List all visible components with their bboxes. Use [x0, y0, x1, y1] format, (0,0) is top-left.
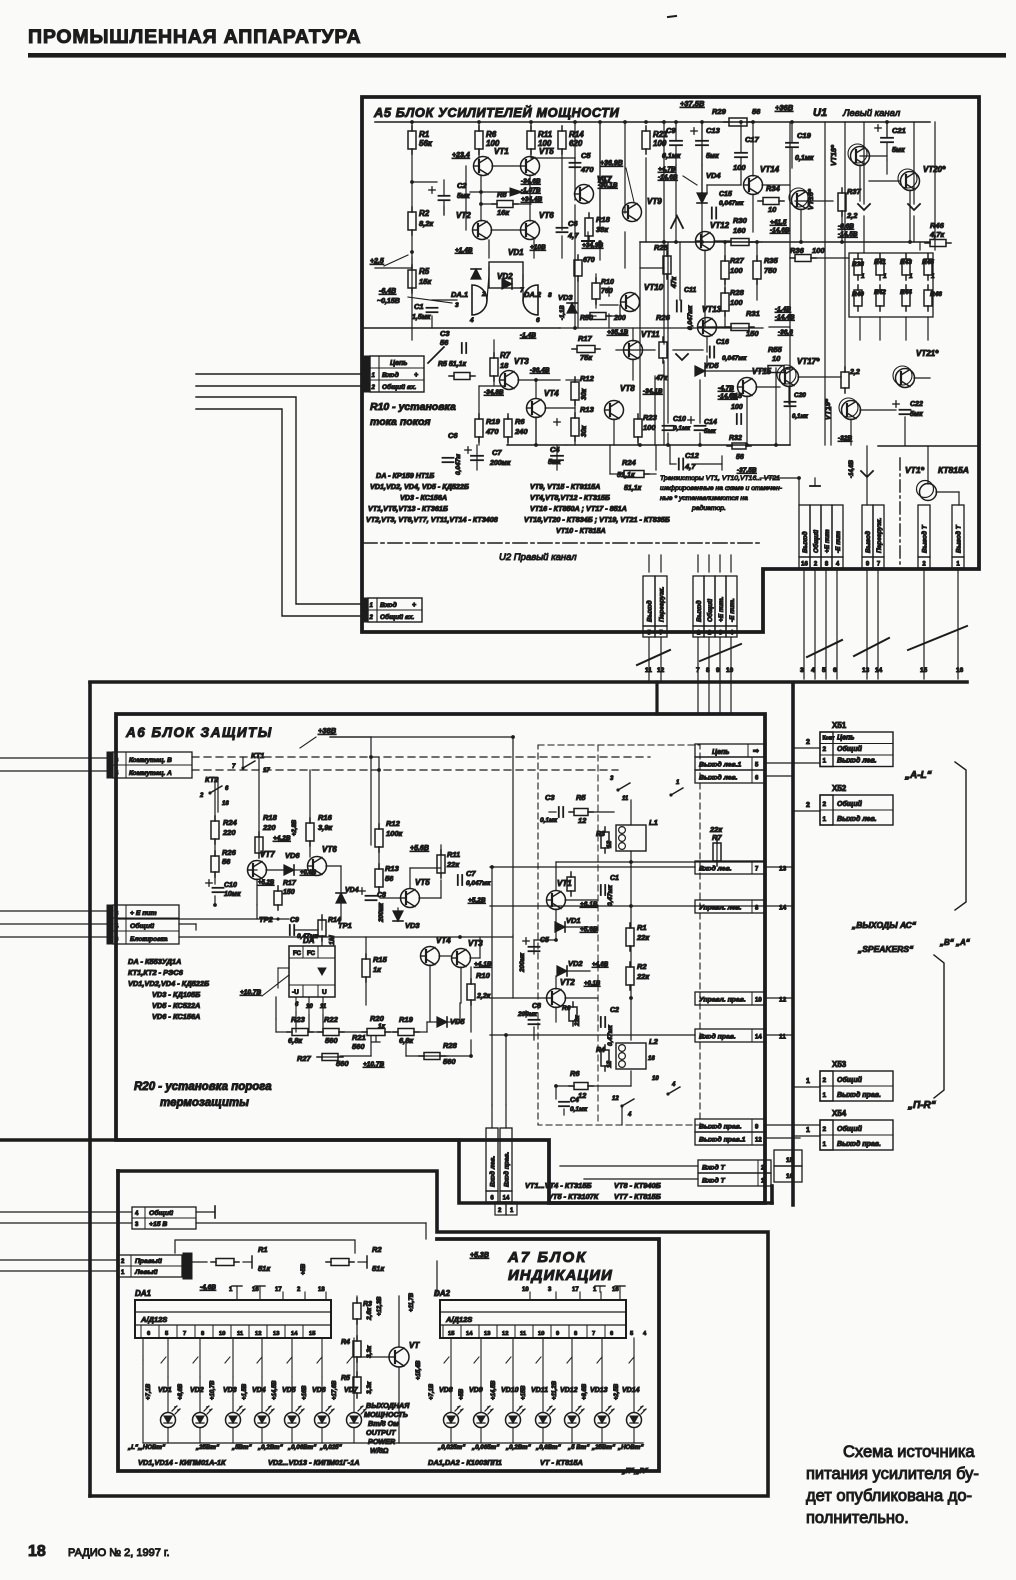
junction (910,242) [908, 240, 912, 244]
wire (471,1056)-(471,1040) [470, 1040, 472, 1056]
svg-text:4: 4 [811, 667, 815, 674]
junction (702,194) [700, 192, 704, 196]
svg-text:С9: С9 [290, 917, 299, 924]
transistor VT9 [623, 203, 642, 222]
diode VD5 [695, 366, 705, 376]
svg-text:„0,025“: „0,025“ [319, 1444, 343, 1451]
wire (322,920)-(322,930) [321, 920, 323, 930]
svg-text:С20: С20 [794, 392, 806, 399]
stray mark top [668, 16, 676, 17]
svg-text:5мк: 5мк [548, 459, 561, 466]
resistor r-bot-1 [876, 290, 884, 306]
wire (692,464)-(722,464) [692, 463, 722, 465]
svg-text:8: 8 [548, 292, 552, 299]
capacitor C2 [439, 195, 450, 197]
svg-text:2: 2 [199, 793, 204, 799]
wire (379,757)-(379,829) [378, 757, 380, 829]
connector column +Е пит U2 [715, 576, 726, 626]
connector column Общий U1 [810, 505, 821, 557]
connector column +Е пит U1 [821, 505, 832, 557]
svg-text:А/Д12S: А/Д12S [445, 1315, 472, 1324]
DA1 pin 17 [282, 1292, 284, 1300]
svg-text:VT10 - КТ815А: VT10 - КТ815А [556, 526, 606, 535]
svg-text:1: 1 [823, 1092, 827, 1099]
wire lower rail [507, 444, 790, 446]
svg-text:R2: R2 [637, 962, 647, 971]
svg-text:VD1,VD14 - КИПМ01А-1К: VD1,VD14 - КИПМ01А-1К [138, 1458, 226, 1467]
wire pin x878 [877, 568, 879, 679]
svg-text:+Е пит.: +Е пит. [718, 596, 725, 622]
wires into table t2 [0, 1259, 118, 1261]
svg-text:Цепь: Цепь [390, 360, 407, 367]
transistor VT17 [780, 368, 799, 387]
svg-text:Общий: Общий [837, 1076, 863, 1084]
transistor VT14 [744, 176, 763, 195]
svg-text:15: 15 [309, 1331, 316, 1337]
svg-text:17: 17 [572, 1287, 579, 1293]
coil L1 [616, 825, 646, 851]
wire col x575 [574, 205, 576, 328]
wire row y328 [560, 327, 763, 329]
svg-text:С21: С21 [892, 126, 906, 135]
bus-1 path [0, 1140, 772, 1203]
junction (640,445) [638, 443, 642, 447]
svg-text:С4: С4 [550, 445, 560, 454]
wire row y181 [869, 180, 900, 182]
svg-text:R7: R7 [712, 833, 722, 842]
capacitor C1 0.47 [600, 885, 602, 895]
wire col x935 [934, 122, 936, 250]
svg-text:FC: FC [307, 951, 316, 957]
svg-text:75к: 75к [580, 353, 593, 362]
svg-text:+37,5В: +37,5В [680, 99, 705, 108]
svg-text:+11,7В: +11,7В [409, 1292, 415, 1312]
transistor VT2 prot [547, 989, 566, 1008]
svg-text:Выход лев.: Выход лев. [699, 774, 738, 782]
svg-text:-1,07В: -1,07В [521, 187, 541, 194]
diode VD2 prot [557, 966, 567, 976]
wire col x831 [830, 407, 832, 445]
svg-text:Общий: Общий [837, 800, 863, 808]
svg-text:VT5: VT5 [539, 147, 554, 156]
svg-text:+36В: +36В [775, 103, 794, 112]
LED bottom rail right [399, 1442, 643, 1444]
connector column Общий U2 [704, 576, 715, 626]
wire (410,888)-(410,868) [409, 868, 411, 888]
svg-text:10: 10 [726, 667, 734, 674]
connector column Выход (left) [643, 576, 655, 626]
T-bar ground near columns [810, 485, 820, 487]
svg-text:30к: 30к [581, 425, 588, 437]
junction (668,445) [666, 443, 670, 447]
svg-text:17: 17 [275, 1287, 282, 1293]
wire row y380 [566, 379, 580, 381]
slashes left [637, 650, 670, 665]
svg-text:760: 760 [601, 288, 613, 295]
wire col x757 [756, 279, 758, 300]
svg-text:VT9, VT15 - КТ9115А: VT9, VT15 - КТ9115А [530, 482, 600, 491]
svg-text:VT7 - КТ815Б: VT7 - КТ815Б [614, 1192, 661, 1201]
svg-text:2,2: 2,2 [846, 211, 858, 220]
transistor VT8 [605, 401, 624, 420]
wire (309,1015)-(309,1032) [308, 1015, 310, 1032]
svg-text:18: 18 [500, 361, 509, 370]
plus mark [554, 421, 560, 423]
transistor VT3 [452, 949, 471, 968]
svg-text:R8: R8 [497, 190, 507, 199]
svg-text:150: 150 [283, 889, 295, 896]
svg-text:L2: L2 [649, 1037, 659, 1046]
svg-text:+15 В: +15 В [149, 1221, 167, 1228]
svg-text:R6: R6 [562, 1005, 571, 1012]
svg-text:Выход: Выход [801, 531, 809, 553]
svg-text:+10В: +10В [530, 244, 546, 251]
resistor r-bot-0 [854, 290, 862, 306]
connector column Выход T1 [862, 505, 873, 557]
svg-text:+: + [412, 602, 416, 609]
wire (575,158)-(575,168) [574, 158, 576, 168]
svg-text:VT18,VT20 - КТ834Б ; VT19, VT2: VT18,VT20 - КТ834Б ; VT19, VT21 - КТ835Б [524, 515, 670, 524]
svg-text:560: 560 [443, 1057, 456, 1066]
svg-text:150: 150 [746, 329, 759, 338]
svg-text:0,047мк: 0,047мк [466, 880, 491, 887]
wire col x914 [913, 216, 915, 242]
resistor R37 2.2 [838, 193, 846, 211]
svg-text:+5,2В: +5,2В [258, 880, 275, 886]
wires vhod columns up [491, 1105, 493, 1128]
wire col x851 [850, 419, 852, 445]
svg-text:2: 2 [806, 802, 810, 809]
wire pin x709 [708, 638, 710, 712]
svg-text:Выход прав.: Выход прав. [837, 1091, 881, 1099]
junction (757,242) [755, 240, 759, 244]
transistor VT10 [621, 293, 640, 312]
svg-text:Выход лев.: Выход лев. [837, 757, 877, 765]
svg-text:15: 15 [448, 1331, 455, 1337]
DA1 pin 18 [325, 1292, 327, 1300]
opamp DA.2 [523, 285, 538, 315]
svg-text:-14,6В: -14,6В [849, 459, 855, 478]
wire row y185 [762, 184, 790, 186]
svg-text:полнительно.: полнительно. [806, 1509, 909, 1527]
svg-text:ПРОМЫШЛЕННАЯ АППАРАТУРА: ПРОМЫШЛЕННАЯ АППАРАТУРА [28, 26, 361, 48]
capacitor C4 5мк [551, 455, 563, 457]
wire row upravl prav [765, 997, 793, 999]
resistor R24 220 [211, 821, 219, 839]
U2 right-channel chain-line box [363, 542, 763, 544]
svg-text:С2: С2 [610, 1007, 619, 1014]
svg-text:14: 14 [755, 1035, 762, 1041]
wire to X51 [793, 747, 820, 749]
svg-text:R19: R19 [486, 417, 501, 426]
svg-text:VD10: VD10 [501, 1387, 519, 1394]
svg-text:КТ1,КТ2 - РЭС6: КТ1,КТ2 - РЭС6 [128, 968, 184, 977]
DA1 out pin 5 [158, 1325, 160, 1338]
junction (792,122) [790, 120, 794, 124]
svg-text:560: 560 [325, 1036, 338, 1045]
resistor R19 6.8к [398, 1029, 414, 1036]
svg-text:1: 1 [931, 273, 935, 280]
svg-text:X51: X51 [832, 721, 847, 730]
capacitor C7 0.047 [457, 875, 459, 885]
wire to X52 [793, 810, 820, 812]
opamp DA.1 [472, 285, 487, 315]
DA2 out pin 10 [532, 1325, 534, 1338]
svg-text:Вход: Вход [380, 601, 397, 609]
svg-text:+0,1В: +0,1В [584, 981, 601, 987]
resistor R6k [569, 1007, 577, 1021]
wire (801,209)-(801,242) [800, 209, 802, 242]
junction (536,445) [534, 443, 538, 447]
resistor R26 56 [211, 856, 219, 872]
header rule bar [28, 53, 1006, 58]
svg-text:„В“ „А“: „В“ „А“ [939, 938, 970, 947]
wire col x479 [478, 437, 480, 445]
wire (722,470)-(722,456) [721, 456, 723, 470]
capacitor C5 200мк [529, 946, 540, 948]
svg-text:+ Е пит: + Е пит [130, 910, 157, 917]
wire (534,240)-(534,258) [533, 240, 535, 258]
svg-text:10: 10 [306, 1004, 313, 1010]
wires VT3 VT4 [493, 340, 495, 358]
wire (596,274)-(596,283) [595, 274, 597, 283]
wire (910,190)-(910,242) [909, 190, 911, 242]
junction (842,242) [840, 240, 844, 244]
wire (471,1000)-(471,1032) [470, 1000, 472, 1032]
resistor R12 100к [375, 829, 383, 847]
connector column Перегруз U1 [873, 505, 884, 557]
resistor R9 670 [574, 260, 582, 276]
connector column Вывод Т a [918, 505, 930, 557]
svg-text:DA1,DA2 - К1003ПП1: DA1,DA2 - К1003ПП1 [428, 1458, 502, 1467]
svg-text:R29: R29 [712, 107, 727, 116]
wire col x725 [724, 311, 726, 328]
svg-text:А5 БЛОК УСИЛИТЕЛЕЙ МОЩНОСТИ: А5 БЛОК УСИЛИТЕЛЕЙ МОЩНОСТИ [373, 104, 620, 120]
svg-text:0,047мк: 0,047мк [687, 305, 694, 330]
wire (670,464)-(670,445) [669, 445, 671, 464]
resistor R17 75к [577, 346, 595, 353]
svg-text:-1,1В: -1,1В [560, 305, 566, 320]
wire (215,778)-(215,821) [214, 778, 216, 821]
svg-text:670: 670 [583, 257, 595, 264]
svg-text:0,1мк: 0,1мк [540, 817, 558, 824]
DA2 out pin 7 [586, 1325, 588, 1338]
connector column Перегрузк (left) [655, 576, 667, 626]
svg-text:VT1,VT5,VT13 - КТ361Б: VT1,VT5,VT13 - КТ361Б [368, 504, 448, 513]
wire col x725 [724, 279, 726, 293]
svg-text:R13: R13 [385, 864, 400, 873]
svg-text:R46: R46 [930, 291, 942, 298]
svg-text:POWER: POWER [368, 1437, 396, 1446]
arrow down 1 [858, 204, 870, 210]
svg-text:радиатор.: радиатор. [691, 504, 726, 512]
resistor R55 10 [768, 366, 784, 373]
svg-text:-14,6В: -14,6В [658, 174, 678, 181]
svg-text:8: 8 [706, 667, 710, 674]
wire right rail [640, 241, 930, 243]
svg-text:Общий: Общий [837, 1125, 863, 1133]
wire +38 feeders [370, 737, 372, 845]
wire col x845 [844, 122, 846, 372]
svg-text:Выход: Выход [646, 600, 654, 622]
svg-text:3,3к: 3,3к [366, 1345, 373, 1358]
svg-text:R5: R5 [419, 267, 430, 276]
ground bar VT7 [582, 240, 594, 242]
capacitor C5 [570, 162, 581, 164]
diode VD6 [284, 865, 294, 875]
DA1 out pin 14 [284, 1325, 286, 1338]
svg-text:Коммутац. А: Коммутац. А [129, 770, 172, 777]
wire (707,356)-(707,368) [706, 356, 708, 368]
svg-text:Выход лев.1: Выход лев.1 [699, 761, 741, 769]
svg-text:С7: С7 [466, 869, 476, 878]
resistor r-bot-3 [924, 290, 932, 306]
DA1 pin 16 [259, 1292, 261, 1300]
junction (625,122) [623, 120, 627, 124]
wire (441,898)-(441,880) [440, 880, 442, 898]
resistor matrix top 1 [876, 259, 884, 275]
resistor R15 1к [362, 959, 370, 977]
transistor VT21 [896, 369, 915, 388]
resistor R28 560 [424, 1053, 440, 1060]
connector row Вход лев [695, 861, 765, 874]
svg-text:VT1: VT1 [494, 147, 509, 156]
svg-text:R6: R6 [515, 417, 525, 426]
DA2 out pin 12 [496, 1325, 498, 1338]
resistor R2 51к [331, 1259, 349, 1266]
svg-text:1к: 1к [378, 1023, 386, 1030]
svg-text:14: 14 [503, 1196, 510, 1202]
wire (842,211)-(842,242) [841, 211, 843, 242]
svg-text:12: 12 [612, 1096, 619, 1102]
resistor R4 3.3к [353, 1341, 361, 1357]
capacitor C21 [881, 137, 893, 139]
resistor R13 56 [375, 869, 383, 887]
DA1 box [135, 1300, 331, 1338]
capacitor C1 [427, 307, 438, 309]
svg-text:VD1: VD1 [566, 916, 581, 925]
junction (513,737) [511, 735, 515, 739]
svg-text:⇒: ⇒ [753, 748, 759, 755]
DA2 pin 1 [600, 1292, 602, 1300]
svg-text:VT8: VT8 [620, 384, 635, 393]
wire U2 pin x709 [708, 555, 710, 572]
DA1 out pin 15 [302, 1325, 304, 1338]
connector table Правый Левый [118, 1255, 182, 1277]
svg-text:„25Вт“: „25Вт“ [591, 1444, 616, 1451]
resistor R12 30к [571, 382, 579, 400]
junction (536,380) [534, 378, 538, 382]
junction (631,906) [629, 904, 633, 908]
wire pin x867 [866, 568, 868, 679]
svg-text:6: 6 [833, 667, 837, 674]
junction (801,242) [799, 240, 803, 244]
svg-text:-14,6В: -14,6В [770, 227, 790, 234]
wire X53 feed [765, 1124, 820, 1126]
svg-text:11: 11 [520, 1331, 527, 1337]
svg-text:0,1мк: 0,1мк [570, 1106, 588, 1113]
svg-text:С15: С15 [719, 191, 732, 198]
wire col x705 [704, 250, 706, 328]
junction (646,122) [644, 120, 648, 124]
svg-text:+14,5В: +14,5В [272, 1380, 278, 1400]
svg-text:Вход прав.: Вход прав. [503, 1152, 511, 1187]
svg-text:4: 4 [671, 1082, 676, 1088]
transistor VT1 prot [547, 891, 566, 910]
junction (492,867) [490, 865, 494, 869]
svg-text:VT16 - КТ850А ; VT17 - 851А: VT16 - КТ850А ; VT17 - 851А [530, 504, 627, 513]
svg-text:VD13: VD13 [590, 1387, 608, 1394]
svg-text:+8,6В: +8,6В [178, 1383, 184, 1400]
svg-text:„5 Вт“: „5 Вт“ [567, 1444, 590, 1451]
svg-text:С4: С4 [570, 1097, 579, 1104]
svg-text:+4,1В: +4,1В [474, 961, 492, 968]
wire (410,868)-(441,868) [410, 867, 441, 869]
svg-text:Общий вх.: Общий вх. [380, 613, 414, 621]
svg-text:„5Вт“: „5Вт“ [231, 1444, 253, 1451]
svg-text:6: 6 [536, 317, 540, 324]
wires filter box [549, 811, 556, 813]
svg-text:Общий: Общий [837, 745, 863, 753]
transistor VT7 [575, 185, 594, 204]
svg-text:14: 14 [466, 1331, 473, 1337]
transistor VT15 [738, 378, 757, 397]
svg-text:А6 БЛОК ЗАЩИТЫ: А6 БЛОК ЗАЩИТЫ [125, 725, 273, 740]
svg-text:„0,065т“: „0,065т“ [471, 1444, 500, 1451]
svg-text:R2: R2 [372, 1245, 382, 1254]
svg-text:VD14: VD14 [622, 1387, 640, 1394]
wire (401,898)-(380,898) [380, 897, 401, 899]
svg-text:22к: 22к [446, 860, 460, 869]
wire (215,872)-(215,884) [214, 872, 216, 884]
wire col x557 [556, 445, 558, 470]
wire pin x958 [957, 568, 959, 679]
svg-text:Общий вх.: Общий вх. [382, 383, 416, 391]
wire (596,316)-(590,316) [590, 315, 596, 317]
wire (789,386)-(789,404) [788, 386, 790, 404]
DA2 box [440, 1300, 626, 1338]
svg-text:VT1: VT1 [557, 879, 572, 888]
resistor R39 2.2 [841, 372, 849, 388]
svg-text:14: 14 [875, 667, 883, 674]
connector row Выход прав1 [695, 1119, 765, 1132]
svg-text:+4,7В: +4,7В [658, 166, 676, 173]
resistor R19 470 [475, 419, 483, 437]
svg-text:VT4,VT8,VT12 - КТ315Б: VT4,VT8,VT12 - КТ315Б [530, 493, 610, 502]
transistor VT4 [527, 399, 546, 418]
svg-text:200мк: 200мк [489, 460, 511, 467]
wire (379,903)-(379,919) [378, 903, 380, 919]
wire col x646 [645, 158, 647, 242]
svg-text:DA2: DA2 [434, 1289, 451, 1298]
svg-text:„0,6Вт“: „0,6Вт“ [535, 1444, 562, 1451]
svg-text:100к: 100к [386, 829, 404, 838]
svg-text:R18: R18 [263, 813, 278, 822]
capacitor C2 0.47 [600, 1017, 602, 1027]
junction (747,445) [745, 443, 749, 447]
wire row y445 [749, 444, 790, 446]
junction (506,1035) [504, 1033, 508, 1037]
resistor R14 [558, 131, 566, 149]
wire (215,839)-(215,856) [214, 839, 216, 856]
svg-text:+41,5: +41,5 [770, 219, 787, 226]
svg-text:R42: R42 [874, 289, 886, 296]
svg-text:10: 10 [538, 1331, 544, 1337]
svg-text:560: 560 [352, 1042, 365, 1051]
svg-text:1: 1 [861, 273, 865, 280]
transistor VT6 [308, 857, 327, 876]
svg-text:10: 10 [522, 1287, 529, 1293]
